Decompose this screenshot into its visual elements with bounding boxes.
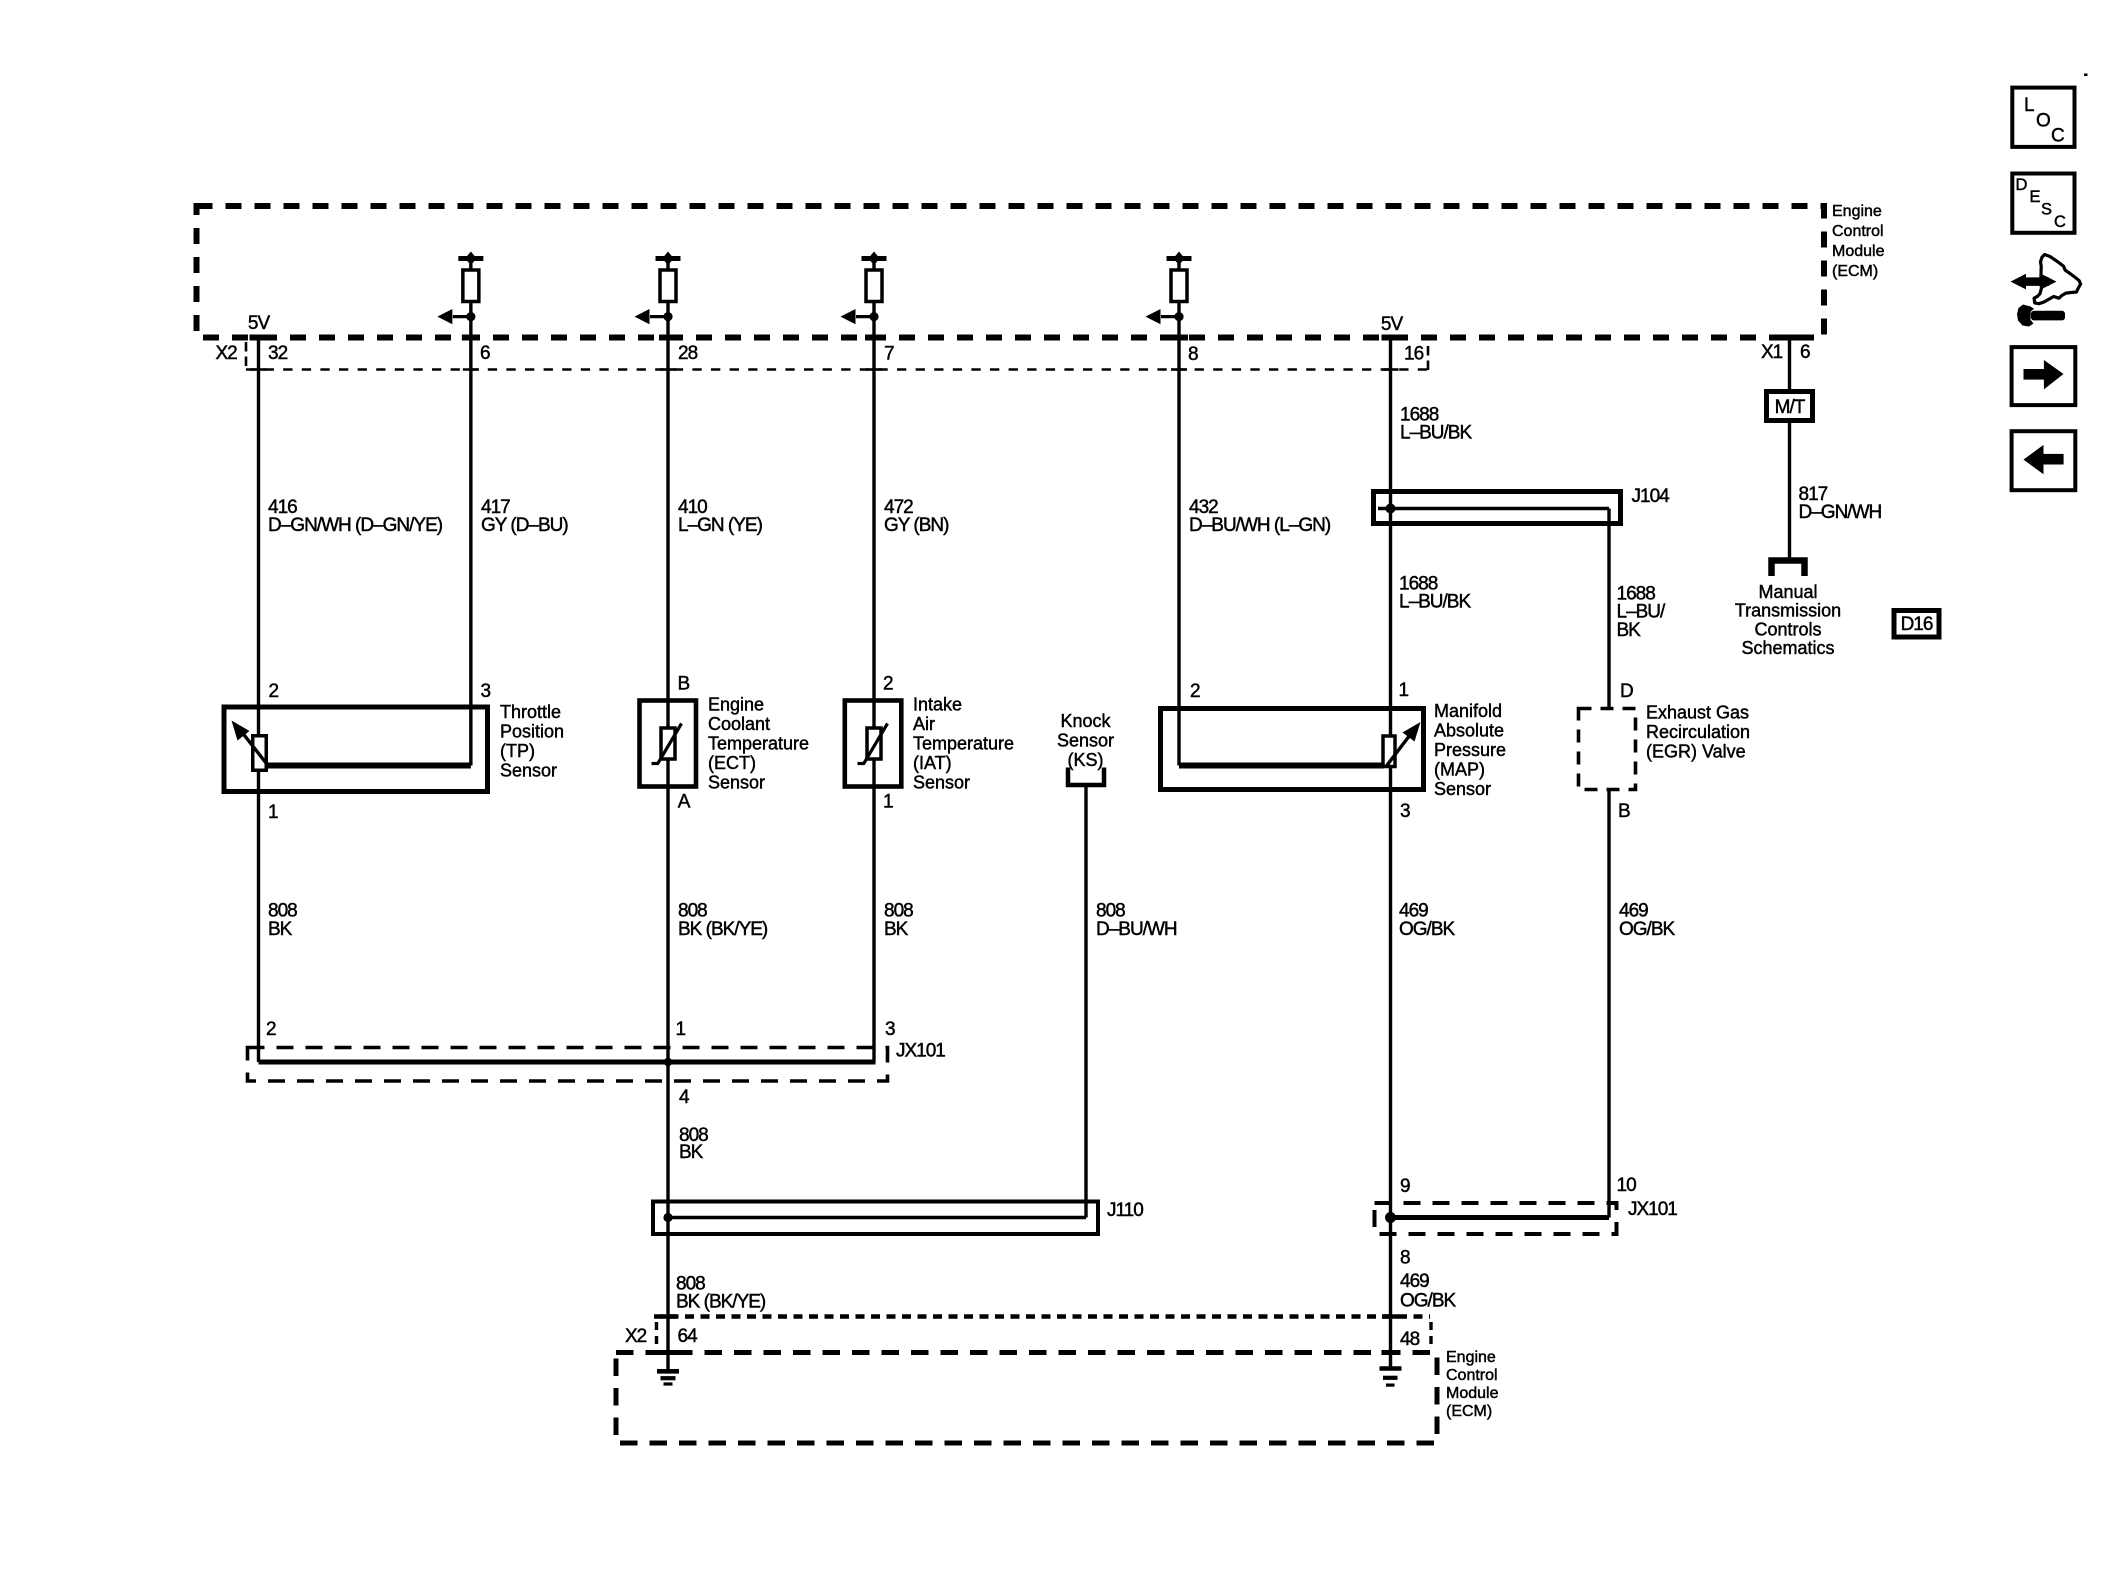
svg-text:Control: Control xyxy=(1832,223,1884,240)
svg-text:Exhaust Gas: Exhaust Gas xyxy=(1646,703,1749,723)
svg-text:JX101: JX101 xyxy=(1628,1199,1677,1220)
svg-text:2: 2 xyxy=(266,1019,276,1040)
svg-text:(ECM): (ECM) xyxy=(1446,1403,1492,1420)
svg-text:GY (BN): GY (BN) xyxy=(884,515,949,536)
svg-text:28: 28 xyxy=(678,343,698,364)
svg-text:Throttle: Throttle xyxy=(500,702,561,722)
svg-text:BK: BK xyxy=(268,919,293,940)
svg-text:B: B xyxy=(678,674,690,695)
svg-text:1: 1 xyxy=(1399,680,1409,701)
svg-text:BK (BK/YE): BK (BK/YE) xyxy=(676,1292,766,1313)
svg-text:3: 3 xyxy=(481,681,491,702)
svg-text:D–BU/WH (L–GN): D–BU/WH (L–GN) xyxy=(1189,515,1331,536)
svg-text:O: O xyxy=(2036,111,2051,132)
svg-text:Manual: Manual xyxy=(1758,582,1817,602)
svg-text:10: 10 xyxy=(1617,1175,1637,1196)
svg-text:Manifold: Manifold xyxy=(1434,701,1502,721)
svg-text:2: 2 xyxy=(883,674,893,695)
svg-text:Module: Module xyxy=(1446,1385,1499,1402)
svg-text:3: 3 xyxy=(885,1019,895,1040)
svg-text:Control: Control xyxy=(1446,1367,1498,1384)
svg-text:D: D xyxy=(2016,176,2028,194)
svg-text:L–BU/BK: L–BU/BK xyxy=(1400,423,1472,444)
svg-text:Engine: Engine xyxy=(1832,203,1882,220)
svg-text:16: 16 xyxy=(1404,344,1424,365)
svg-text:A: A xyxy=(678,792,691,813)
svg-text:Sensor: Sensor xyxy=(913,773,970,793)
svg-text:(MAP): (MAP) xyxy=(1434,760,1485,780)
svg-text:BK: BK xyxy=(679,1142,704,1163)
svg-text:OG/BK: OG/BK xyxy=(1399,919,1456,940)
svg-text:X2: X2 xyxy=(216,343,238,364)
svg-text:(KS): (KS) xyxy=(1068,750,1104,770)
svg-text:Recirculation: Recirculation xyxy=(1646,722,1750,742)
svg-text:3: 3 xyxy=(1400,801,1410,822)
svg-text:8: 8 xyxy=(1400,1248,1410,1269)
svg-text:L: L xyxy=(2024,95,2035,116)
svg-text:D–GN/WH: D–GN/WH xyxy=(1799,502,1882,523)
svg-text:Controls: Controls xyxy=(1754,619,1821,639)
svg-text:Module: Module xyxy=(1832,243,1885,260)
svg-text:Temperature: Temperature xyxy=(913,734,1014,754)
svg-text:OG/BK: OG/BK xyxy=(1400,1291,1457,1312)
svg-text:Coolant: Coolant xyxy=(708,714,770,734)
svg-text:(EGR) Valve: (EGR) Valve xyxy=(1646,742,1746,762)
svg-text:GY (D–BU): GY (D–BU) xyxy=(481,515,568,536)
svg-text:5V: 5V xyxy=(248,313,271,334)
svg-text:7: 7 xyxy=(884,344,894,365)
svg-text:D–BU/WH: D–BU/WH xyxy=(1096,919,1177,940)
svg-text:Knock: Knock xyxy=(1060,711,1111,731)
svg-text:8: 8 xyxy=(1188,344,1198,365)
svg-text:Engine: Engine xyxy=(708,695,764,715)
svg-text:X2: X2 xyxy=(625,1326,647,1347)
svg-text:M/T: M/T xyxy=(1775,397,1806,418)
svg-text:D16: D16 xyxy=(1901,614,1933,635)
svg-text:Temperature: Temperature xyxy=(708,734,809,754)
svg-text:1: 1 xyxy=(676,1019,686,1040)
svg-text:C: C xyxy=(2051,126,2065,147)
svg-text:C: C xyxy=(2054,213,2066,231)
svg-text:B: B xyxy=(1618,801,1630,822)
svg-text:1: 1 xyxy=(883,792,893,813)
svg-text:Transmission: Transmission xyxy=(1735,601,1841,621)
svg-text:OG/BK: OG/BK xyxy=(1619,919,1676,940)
svg-text:(ECT): (ECT) xyxy=(708,753,756,773)
svg-text:Sensor: Sensor xyxy=(500,761,557,781)
svg-text:Position: Position xyxy=(500,722,564,742)
svg-text:Absolute: Absolute xyxy=(1434,721,1504,741)
svg-text:6: 6 xyxy=(480,343,490,364)
svg-text:469: 469 xyxy=(1400,1271,1429,1292)
svg-text:5V: 5V xyxy=(1381,314,1404,335)
svg-text:9: 9 xyxy=(1400,1176,1410,1197)
svg-text:6: 6 xyxy=(1800,342,1810,363)
svg-text:Pressure: Pressure xyxy=(1434,740,1506,760)
svg-text:48: 48 xyxy=(1400,1329,1420,1350)
svg-text:Sensor: Sensor xyxy=(1434,779,1491,799)
svg-text:JX101: JX101 xyxy=(896,1041,945,1062)
svg-text:32: 32 xyxy=(268,343,288,364)
svg-text:(TP): (TP) xyxy=(500,741,535,761)
svg-text:S: S xyxy=(2041,201,2052,219)
svg-text:2: 2 xyxy=(1190,681,1200,702)
svg-text:Sensor: Sensor xyxy=(1057,731,1114,751)
svg-text:BK (BK/YE): BK (BK/YE) xyxy=(678,919,768,940)
svg-text:1: 1 xyxy=(268,802,278,823)
svg-text:X1: X1 xyxy=(1761,342,1783,363)
svg-text:Engine: Engine xyxy=(1446,1349,1496,1366)
svg-text:2: 2 xyxy=(269,681,279,702)
svg-text:64: 64 xyxy=(678,1326,699,1347)
svg-text:(ECM): (ECM) xyxy=(1832,263,1878,280)
svg-text:L–GN (YE): L–GN (YE) xyxy=(678,515,763,536)
svg-text:4: 4 xyxy=(679,1087,690,1108)
svg-text:Sensor: Sensor xyxy=(708,773,765,793)
svg-text:E: E xyxy=(2030,188,2041,206)
svg-text:Schematics: Schematics xyxy=(1741,638,1834,658)
svg-text:BK: BK xyxy=(1617,620,1642,641)
svg-text:BK: BK xyxy=(884,919,909,940)
svg-text:Air: Air xyxy=(913,714,935,734)
svg-text:Intake: Intake xyxy=(913,695,962,715)
svg-text:D: D xyxy=(1620,681,1633,702)
svg-text:D–GN/WH (D–GN/YE): D–GN/WH (D–GN/YE) xyxy=(268,515,443,536)
svg-text:J104: J104 xyxy=(1632,486,1671,507)
svg-text:L–BU/BK: L–BU/BK xyxy=(1399,592,1471,613)
svg-text:J110: J110 xyxy=(1107,1200,1143,1221)
svg-text:(IAT): (IAT) xyxy=(913,753,952,773)
